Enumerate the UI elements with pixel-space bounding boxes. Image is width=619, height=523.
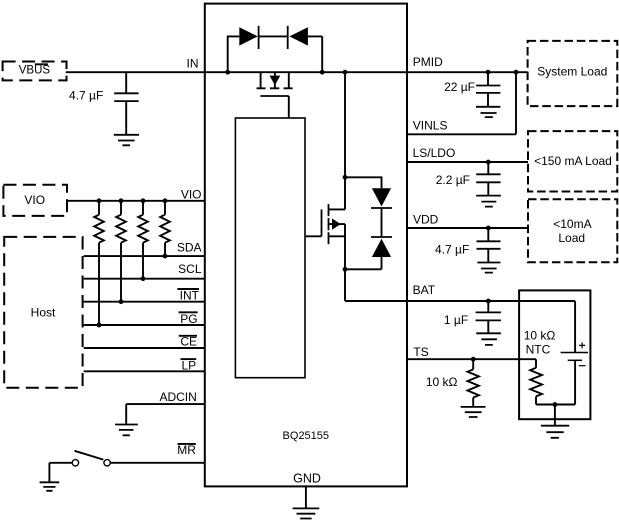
IC U1 internal control block	[235, 118, 305, 378]
svg-text:SCL: SCL	[178, 262, 202, 276]
svg-text:BQ25155: BQ25155	[283, 430, 329, 442]
resistor R5 10 kOhm on TS	[426, 359, 479, 407]
resistor R3 pull-up SCL	[138, 201, 148, 279]
capacitor C2 22 uF on PMID	[444, 72, 500, 107]
wire PMID down to battery FET	[344, 72, 346, 177]
wire VBUS to IN pin and through to PMID	[66, 71, 528, 73]
node junction dot R4 top	[163, 198, 168, 203]
diode D3 (points down)	[372, 188, 391, 206]
node junction dot PG	[97, 323, 102, 328]
node junction dot PMID branch	[343, 70, 348, 75]
svg-text:4.7 µF: 4.7 µF	[69, 89, 103, 103]
wire battery bottom junction	[536, 404, 575, 406]
svg-text:System Load: System Load	[537, 64, 607, 78]
node junction dot R1 top	[97, 198, 102, 203]
wire input diode branch right	[308, 36, 322, 72]
svg-text:VIO: VIO	[181, 187, 202, 201]
pin label CE with overline	[179, 335, 197, 349]
node junction dot R3 top	[141, 198, 146, 203]
svg-text:<150 mA Load: <150 mA Load	[534, 154, 612, 168]
svg-text:VIO: VIO	[24, 193, 45, 207]
node junction dot 2.2uF	[486, 160, 491, 165]
ground below C1	[114, 135, 139, 146]
svg-text:SDA: SDA	[177, 240, 202, 254]
wire BAT net	[345, 269, 575, 301]
node junction dot left diode branch	[225, 70, 230, 75]
svg-text:10 kΩ: 10 kΩ	[524, 329, 556, 343]
battery pack box	[519, 290, 590, 419]
ground below C5	[476, 333, 501, 345]
resistor R2 pull-up INT	[116, 201, 126, 302]
wire input diode branch left	[228, 36, 240, 72]
wire ADCIN net	[126, 404, 205, 424]
load box 10 mA	[528, 199, 617, 262]
svg-text:GND: GND	[293, 471, 321, 485]
ground below GND pin	[293, 508, 320, 518]
wire between D3 and D4	[381, 208, 383, 237]
wire between D1 and D2	[259, 35, 288, 37]
diode D2 (points left)	[289, 27, 308, 45]
node junction dot R2 top	[119, 198, 124, 203]
node junction dot right diode branch	[320, 70, 325, 75]
ground below C4	[477, 263, 500, 273]
svg-text:10 kΩ: 10 kΩ	[426, 375, 458, 389]
diode D1 (points right)	[239, 27, 257, 45]
source box Host	[4, 237, 82, 388]
svg-text:PMID: PMID	[413, 55, 443, 69]
node junction dot TS resistor	[471, 357, 476, 362]
ground below battery pack	[541, 426, 569, 438]
node junction dot battery FET source	[343, 267, 348, 272]
load box System Load	[528, 41, 618, 106]
svg-text:4.7 µF: 4.7 µF	[435, 242, 469, 256]
wire SDA net	[84, 255, 205, 257]
source box VBUS	[3, 62, 67, 81]
wire diode chain bottom	[345, 257, 382, 269]
wire LS/LDO net	[407, 161, 528, 163]
svg-text:LS/LDO: LS/LDO	[413, 146, 456, 160]
ground below C2	[476, 107, 500, 117]
ground below switch	[40, 482, 60, 491]
pin label INT with overline	[177, 288, 199, 302]
node junction dot battery ground	[553, 402, 558, 407]
pin label LP with overline	[181, 358, 197, 372]
capacitor C5 1 uF on BAT	[444, 301, 501, 333]
wire switch to ground	[49, 463, 72, 483]
svg-text:Load: Load	[558, 231, 585, 245]
node junction dot battery FET drain	[343, 175, 348, 180]
wire PG net	[84, 324, 205, 326]
wire TS net	[407, 358, 536, 360]
svg-text:<10mA: <10mA	[553, 217, 591, 231]
node junction dot SCL	[141, 276, 146, 281]
switch S1 on MR	[72, 451, 110, 466]
svg-text:IN: IN	[187, 56, 199, 70]
node junction dot VINLS tap	[514, 70, 519, 75]
svg-text:Host: Host	[31, 306, 56, 320]
wire VIO net	[67, 200, 205, 202]
wire GND pin lead	[305, 486, 307, 508]
svg-text:PG: PG	[180, 312, 197, 326]
capacitor C1 4.7 uF on IN	[69, 72, 139, 135]
svg-text:VDD: VDD	[413, 212, 439, 226]
ground below R5	[461, 407, 486, 417]
diode D4 (points up)	[371, 236, 392, 238]
transistor Q1 input FET	[257, 72, 293, 118]
transistor Q2 battery FET	[305, 177, 345, 269]
source box VIO	[3, 185, 67, 216]
IC U1 BQ25155 outline	[205, 4, 407, 487]
load box 150 mA	[528, 131, 617, 191]
svg-text:BAT: BAT	[413, 283, 436, 297]
wire SCL net	[84, 278, 205, 280]
wire to body diode chain top	[345, 177, 382, 188]
resistor R1 pull-up PG	[94, 201, 104, 325]
thermistor NTC 10 kOhm	[530, 359, 542, 404]
svg-text:MR: MR	[177, 443, 196, 457]
svg-text:LP: LP	[182, 358, 197, 372]
ground below C3	[476, 196, 501, 207]
battery cell B1	[561, 301, 589, 405]
pin label MR with overline	[177, 443, 196, 457]
svg-text:22 µF: 22 µF	[444, 80, 475, 94]
node junction dot 4.7uF VDD	[486, 226, 491, 231]
svg-text:TS: TS	[413, 345, 428, 359]
node junction dot 22uF	[486, 70, 491, 75]
svg-text:VBUS: VBUS	[19, 64, 51, 76]
svg-text:NTC: NTC	[526, 343, 551, 357]
node junction dot INT	[119, 299, 124, 304]
node junction dot 1uF BAT	[486, 299, 491, 304]
svg-text:ADCIN: ADCIN	[159, 390, 196, 404]
node junction dot SDA	[163, 254, 168, 259]
capacitor C4 4.7 uF on VDD	[435, 228, 500, 263]
pin label PG with overline	[179, 312, 198, 326]
wire MR net	[110, 462, 205, 464]
ground on ADCIN	[115, 425, 138, 436]
svg-text:CE: CE	[180, 335, 197, 349]
wire INT net	[84, 301, 205, 303]
capacitor C3 2.2 uF on LS/LDO	[436, 162, 501, 196]
wire LP net	[84, 370, 205, 372]
svg-text:INT: INT	[180, 288, 200, 302]
wire VINLS net	[407, 72, 516, 134]
resistor R4 pull-up SDA	[160, 201, 170, 256]
wire battery ground lead	[554, 405, 556, 426]
svg-text:VINLS: VINLS	[413, 119, 448, 133]
svg-text:2.2 µF: 2.2 µF	[436, 173, 470, 187]
wire CE net	[84, 347, 205, 349]
wire VDD net	[407, 227, 528, 229]
svg-text:1 µF: 1 µF	[444, 313, 468, 327]
